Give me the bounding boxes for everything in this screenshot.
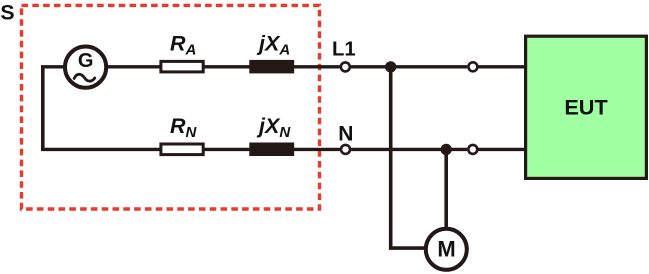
wire: terminal N to junction on neutral bbox=[351, 148, 467, 151]
wire: RA to jXA bbox=[204, 65, 250, 68]
wire: from neutral junction down to measuring device M bbox=[444, 149, 448, 228]
wire: left stub to generator bbox=[41, 65, 65, 68]
wire: terminal L1 to EUT (through junction) bbox=[351, 65, 467, 68]
svg-text:M: M bbox=[437, 237, 455, 262]
wire: open circle to EUT left edge (neutral) bbox=[478, 148, 526, 151]
svg-text:S: S bbox=[0, 0, 14, 24]
svg-text:N: N bbox=[338, 122, 353, 145]
node: junction on line L1 bbox=[385, 61, 396, 72]
sine symbol inside generator bbox=[74, 74, 95, 81]
svg-text:G: G bbox=[78, 50, 94, 72]
wire: from L1 junction down and right to measuring device M bbox=[391, 67, 426, 248]
wire: jXN to terminal N bbox=[294, 148, 340, 151]
open connector circle on neutral near EUT bbox=[468, 145, 477, 154]
wire: generator to resistor RA bbox=[106, 65, 160, 68]
measuring device M bbox=[426, 229, 467, 270]
terminal N (open circle) bbox=[341, 145, 350, 154]
svg-text:RA: RA bbox=[170, 31, 196, 58]
svg-text:EUT: EUT bbox=[564, 94, 608, 119]
resistor RA bbox=[161, 61, 203, 72]
wire: neutral line from vertical to RN bbox=[41, 148, 160, 151]
wire: RN to jXN bbox=[204, 148, 250, 151]
resistor RN bbox=[161, 144, 203, 155]
generator G (AC source) bbox=[65, 47, 106, 88]
terminal L1 (open circle) bbox=[341, 62, 350, 71]
open connector circle on line L1 near EUT bbox=[468, 62, 477, 71]
wire: open circle to EUT left edge (line L1) bbox=[479, 65, 527, 68]
EUT box bbox=[526, 36, 647, 178]
svg-text:RN: RN bbox=[170, 114, 198, 141]
reactance jXN bbox=[249, 143, 294, 157]
svg-text:L1: L1 bbox=[332, 39, 356, 61]
node: junction on neutral line bbox=[441, 144, 452, 155]
svg-text:jXA: jXA bbox=[256, 31, 290, 58]
dashed boundary box of artificial mains network S bbox=[22, 5, 320, 209]
wire: left vertical between generator line and neutral line bbox=[41, 67, 45, 150]
svg-text:jXN: jXN bbox=[256, 114, 291, 141]
wire: jXA to terminal L1 bbox=[294, 65, 340, 68]
reactance jXA bbox=[249, 60, 294, 74]
